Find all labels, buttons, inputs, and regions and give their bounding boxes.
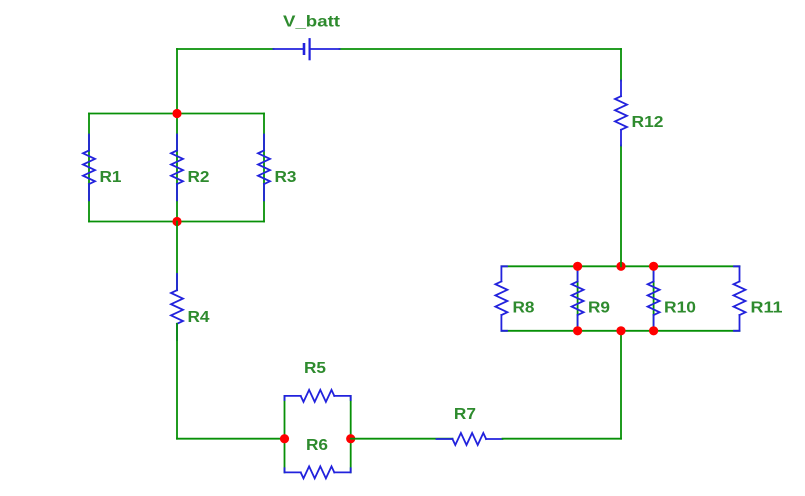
- wire right vertical from bottom corner up to block3: [620, 331, 622, 439]
- svg-text:R5: R5: [304, 360, 326, 377]
- wire block2 right vertical: [350, 396, 352, 473]
- wire top rail left segment (battery node to left drop): [177, 48, 274, 50]
- node A top junction dot: [172, 109, 181, 118]
- resistor R12: [615, 81, 627, 146]
- battery V_batt: [274, 39, 340, 59]
- svg-text:R8: R8: [513, 299, 535, 316]
- wire block3 top rail: [501, 265, 739, 267]
- node G block3 top dot R10: [649, 262, 658, 271]
- wire right vertical from top rail down to block3: [620, 146, 622, 267]
- resistor R4: [171, 274, 183, 340]
- wire right vertical top segment (top rail corner to R12): [620, 49, 622, 81]
- resistor R8: [495, 266, 507, 331]
- resistor R11: [734, 266, 746, 331]
- resistor R10: [648, 268, 660, 329]
- svg-text:R1: R1: [100, 169, 122, 186]
- wire from R7 to bottom-right corner: [503, 438, 622, 440]
- svg-text:R11: R11: [751, 299, 783, 316]
- svg-text:R10: R10: [664, 299, 696, 316]
- wire block3 R9 vertical: [577, 266, 579, 331]
- wire bottom horizontal to R5/R6 block: [177, 438, 285, 440]
- wire block1 top rail: [89, 113, 264, 115]
- node H block3 bottom dot R9: [573, 326, 582, 335]
- svg-text:R2: R2: [188, 169, 210, 186]
- resistor R1: [83, 135, 95, 201]
- node D block2 right junction dot: [346, 434, 355, 443]
- resistor R6: [285, 466, 351, 478]
- svg-text:V_batt: V_batt: [283, 13, 341, 30]
- resistor R7: [437, 433, 503, 445]
- node J block3 bottom dot R10: [649, 326, 658, 335]
- svg-text:R7: R7: [454, 406, 476, 423]
- svg-text:R12: R12: [632, 114, 664, 131]
- wire top rail right segment (battery to right drop): [340, 48, 622, 50]
- wire left vertical drop from top rail to node A: [176, 49, 178, 114]
- wire block1 right vertical (R3 branch): [263, 114, 265, 222]
- resistor R3: [258, 135, 270, 201]
- node F block3 top dot center: [616, 262, 625, 271]
- wire from R4 down to bottom-left corner: [176, 324, 178, 439]
- wire block3 R10 vertical: [653, 266, 655, 331]
- svg-text:R9: R9: [588, 299, 610, 316]
- node C block2 left junction dot: [280, 434, 289, 443]
- wire block2 left vertical: [284, 396, 286, 473]
- wire from node B down to R4: [176, 222, 178, 291]
- wire block1 left vertical (R1 branch): [88, 114, 90, 222]
- resistor R5: [285, 390, 351, 402]
- svg-text:R3: R3: [275, 169, 297, 186]
- wire block1 bottom rail: [89, 221, 264, 223]
- svg-text:R4: R4: [188, 309, 210, 326]
- wire block3 bottom rail: [501, 330, 739, 332]
- svg-text:R6: R6: [306, 437, 328, 454]
- resistor R9: [572, 268, 584, 329]
- node B bottom junction dot: [172, 217, 181, 226]
- node I block3 bottom dot center: [616, 326, 625, 335]
- resistor R2: [171, 135, 183, 201]
- node E block3 top dot R9: [573, 262, 582, 271]
- wire from block2 to R7: [351, 438, 453, 440]
- wire block1 middle vertical (R2 branch): [176, 114, 178, 222]
